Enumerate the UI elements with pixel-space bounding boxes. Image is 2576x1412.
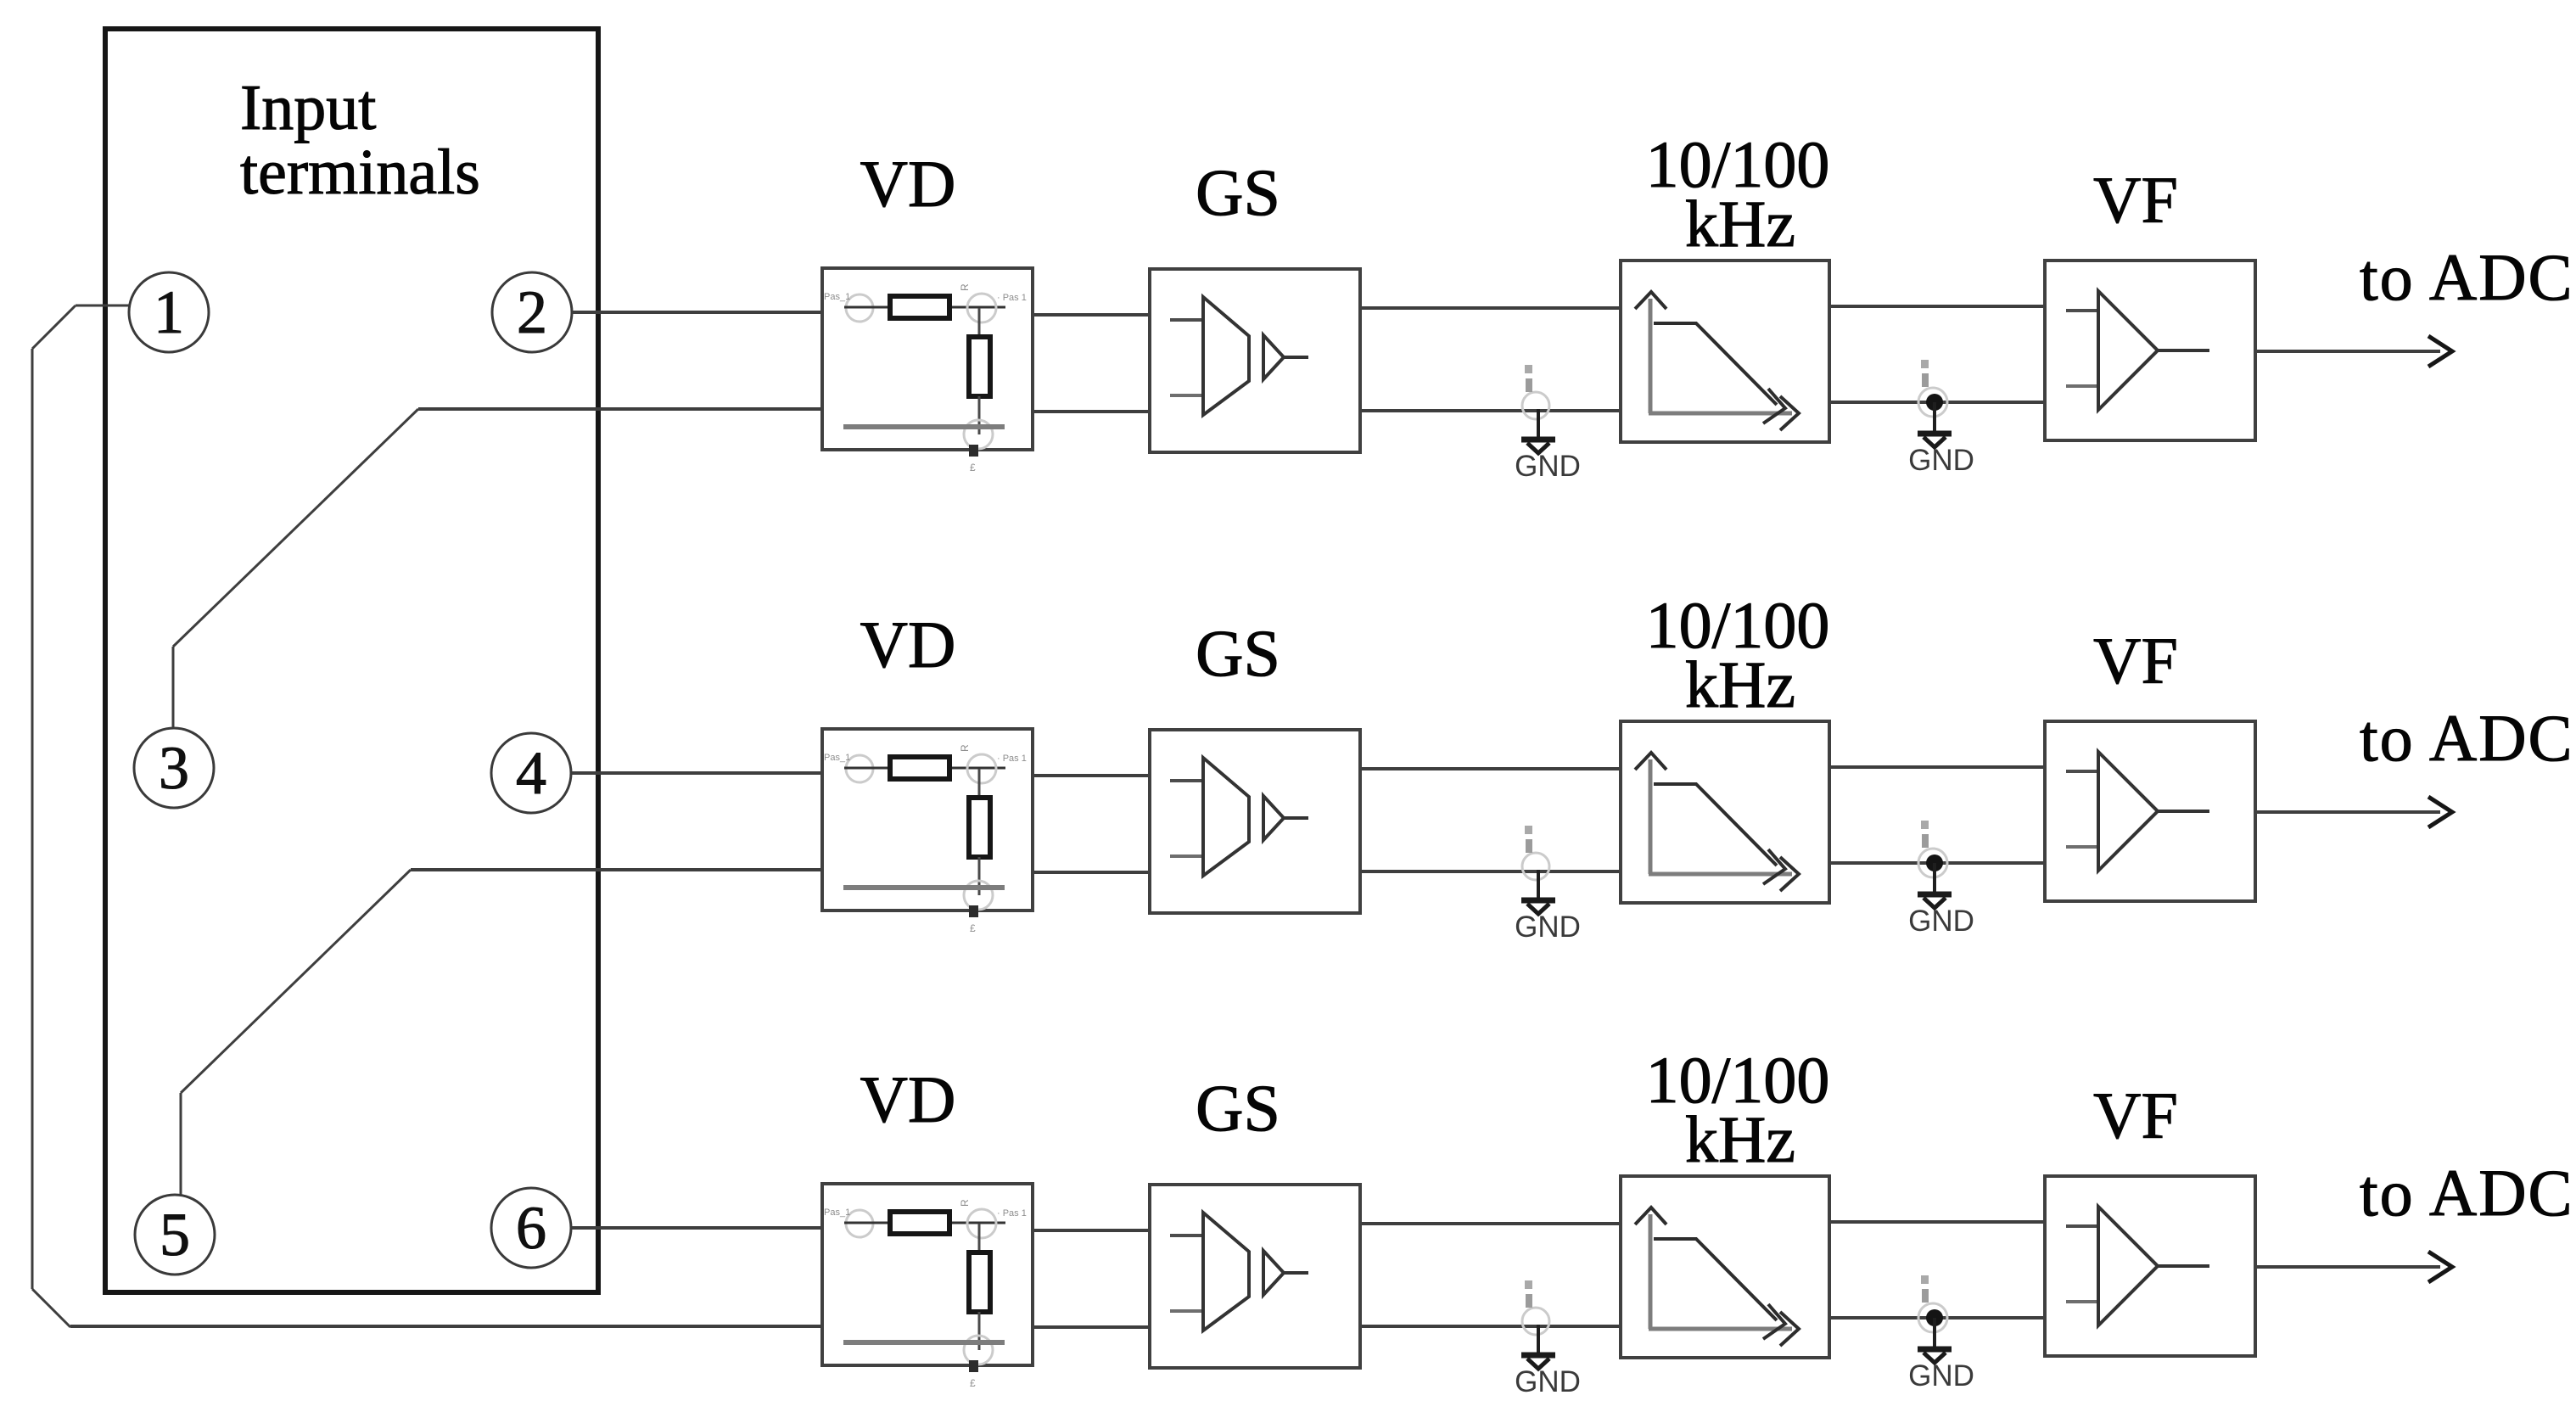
wire outer loop bottom corner (32, 1289, 70, 1327)
ground GND row2 a (1515, 826, 1581, 944)
resistor R2 shunt VD row3 (969, 1252, 990, 1312)
block LPF 10/100 kHz row1 (1621, 261, 1829, 442)
lowpass response symbol row3 (1635, 1207, 1799, 1346)
wire VD to GS row2 upper (1033, 774, 1150, 777)
svg-text:to ADC: to ADC (2360, 1156, 2574, 1230)
wire VD input to R1 row2 (844, 767, 889, 770)
wire R1 to divider node row3 (952, 1222, 1005, 1224)
block GS row2 (1150, 730, 1360, 913)
wire divider node to R2 row1 (978, 308, 981, 338)
wire terminal to VD row1 upper (572, 311, 822, 314)
input terminals box (105, 29, 598, 1292)
svg-text:1: 1 (154, 278, 184, 346)
svg-text:£: £ (970, 922, 976, 934)
block GS row1 (1150, 269, 1360, 452)
resistor R2 shunt VD row2 (969, 798, 990, 857)
block LPF 10/100 kHz row3 (1621, 1176, 1829, 1358)
svg-text:GS: GS (1196, 616, 1280, 690)
node divider VD row2 (967, 754, 996, 783)
block VF row3 (2045, 1176, 2255, 1356)
wire LPF to VF row1 lower (1829, 401, 2045, 404)
pin stub VD bottom row3 (969, 1360, 978, 1372)
wire row2 vertical into terminal 5 (180, 1093, 182, 1195)
wire VF output to ADC row3 (2255, 1252, 2452, 1282)
common rail VD row1 (843, 424, 1005, 429)
wire divider node to R2 row2 (978, 769, 981, 798)
wire LPF to VF row1 upper (1829, 305, 2045, 308)
terminal 1 (129, 272, 209, 352)
pin circle Pas_1 VD row1 (846, 294, 873, 322)
svg-text:VF: VF (2093, 163, 2178, 237)
svg-text:£: £ (970, 462, 976, 473)
wire GS to LPF row2 upper (1360, 767, 1621, 770)
svg-text:GND: GND (1515, 911, 1581, 944)
pin circle common VD row3 (964, 1336, 993, 1364)
svg-text:3: 3 (159, 734, 189, 802)
wire VD to GS row3 upper (1033, 1229, 1150, 1232)
terminal 6 (491, 1188, 571, 1268)
ground GND row1 b (1908, 360, 1974, 477)
terminal 2 (492, 272, 572, 352)
ground GND row1 a (1515, 365, 1581, 483)
svg-text:Pas_1: Pas_1 (824, 753, 850, 763)
svg-text:Pas_1: Pas_1 (824, 1207, 850, 1218)
wire LPF to VF row3 lower (1829, 1316, 2045, 1320)
wire terminal 1 to outer loop (76, 305, 129, 307)
wire divider node to R2 row3 (978, 1224, 981, 1253)
pin circle Pas_1 VD row3 (846, 1210, 873, 1237)
wire VD to GS row3 lower (1033, 1325, 1150, 1329)
svg-text:GND: GND (1515, 450, 1581, 483)
terminal 5 (135, 1195, 215, 1275)
common rail VD row3 (843, 1340, 1005, 1345)
wire VD to GS row2 lower (1033, 871, 1150, 874)
junction row1 (1926, 394, 1943, 411)
pin circle Pas_1 VD row2 (846, 755, 873, 782)
label 10/100 kHz row2 (1646, 588, 1830, 721)
svg-text:· Pas 1: · Pas 1 (997, 1208, 1027, 1219)
wire R1 to divider node row1 (952, 306, 1005, 309)
wire GS to LPF row3 upper (1360, 1222, 1621, 1225)
svg-text:R: R (959, 744, 971, 752)
wire row2 lower horizontal (411, 868, 822, 871)
wire outer loop bottom run to VD row3 (70, 1325, 822, 1328)
wire GS to LPF row1 upper (1360, 306, 1621, 310)
svg-text:· Pas 1: · Pas 1 (997, 293, 1027, 303)
wire LPF to VF row3 upper (1829, 1220, 2045, 1224)
wire outer loop left vertical (31, 349, 34, 1289)
resistor R1 series VD row3 (890, 1212, 949, 1234)
svg-text:6: 6 (516, 1194, 546, 1262)
wire row2 diagonal to terminal 5 (181, 870, 411, 1093)
svg-text:5: 5 (160, 1201, 190, 1269)
amplifier VF row3 (2066, 1207, 2209, 1325)
node divider VD row3 (967, 1209, 996, 1238)
amplifier GS row2 (1170, 758, 1308, 876)
pin stub VD bottom row1 (969, 445, 978, 457)
svg-text:Pas_1: Pas_1 (824, 292, 850, 302)
wire row1 diagonal to terminal 3 (173, 409, 418, 647)
resistor R2 shunt VD row1 (969, 337, 990, 396)
amplifier VF row1 (2066, 291, 2209, 410)
svg-text:kHz: kHz (1685, 647, 1795, 721)
lowpass response symbol row2 (1635, 753, 1799, 891)
wire VD input to R1 row3 (844, 1222, 889, 1224)
svg-text:GND: GND (1908, 905, 1974, 938)
svg-text:GND: GND (1515, 1365, 1581, 1398)
svg-text:R: R (959, 283, 971, 291)
node divider VD row1 (967, 294, 996, 322)
wire R2 to common row2 (978, 857, 981, 895)
wire terminal to VD row2 upper (572, 771, 822, 775)
wire outer loop top corner (32, 305, 76, 349)
svg-text:GS: GS (1196, 1071, 1280, 1145)
pin circle common VD row1 (964, 420, 993, 449)
svg-text:· Pas 1: · Pas 1 (997, 754, 1027, 764)
svg-text:GND: GND (1908, 444, 1974, 477)
svg-text:GND: GND (1908, 1359, 1974, 1392)
svg-text:kHz: kHz (1685, 187, 1795, 261)
wire GS to LPF row1 lower (1360, 409, 1619, 412)
svg-text:R: R (959, 1199, 971, 1207)
label Input terminals (240, 72, 480, 208)
amplifier GS row3 (1170, 1213, 1308, 1331)
wire VF output to ADC row2 (2255, 797, 2452, 827)
wire VD to GS row1 lower (1033, 410, 1150, 413)
svg-text:VF: VF (2093, 624, 2178, 698)
label 10/100 kHz row3 (1646, 1043, 1830, 1176)
pin stub VD bottom row2 (969, 905, 978, 917)
wire GS to LPF row2 lower (1360, 870, 1619, 873)
wire LPF to VF row2 upper (1829, 765, 2045, 769)
svg-text:2: 2 (517, 278, 547, 346)
wire R2 to common row3 (978, 1312, 981, 1350)
ground GND row3 a (1515, 1280, 1581, 1398)
svg-text:terminals: terminals (240, 137, 480, 208)
svg-text:kHz: kHz (1685, 1102, 1795, 1176)
block LPF 10/100 kHz row2 (1621, 721, 1829, 903)
block VF row2 (2045, 721, 2255, 901)
svg-text:GS: GS (1196, 155, 1280, 229)
junction row3 (1926, 1309, 1943, 1326)
block VD row3 (822, 1184, 1033, 1365)
svg-text:4: 4 (516, 739, 546, 807)
wire terminal to VD row3 upper (572, 1226, 822, 1230)
wire GS to LPF row3 lower (1360, 1325, 1619, 1328)
common rail VD row2 (843, 885, 1005, 890)
wire VD input to R1 row1 (844, 306, 889, 309)
block GS row3 (1150, 1185, 1360, 1368)
wire VF output to ADC row1 (2255, 336, 2452, 367)
svg-text:Input: Input (240, 72, 376, 143)
pin circle common VD row2 (964, 881, 993, 910)
lowpass response symbol row1 (1635, 292, 1799, 430)
svg-text:to ADC: to ADC (2360, 701, 2574, 775)
svg-text:VD: VD (860, 1062, 956, 1136)
wire row1 lower horizontal (418, 407, 822, 411)
label 10/100 kHz row1 (1646, 127, 1830, 261)
wire row1 vertical into terminal 3 (172, 647, 175, 728)
wire LPF to VF row2 lower (1829, 861, 2045, 865)
resistor R1 series VD row2 (890, 757, 949, 779)
amplifier VF row2 (2066, 752, 2209, 871)
svg-text:to ADC: to ADC (2360, 240, 2574, 314)
amplifier GS row1 (1170, 297, 1308, 415)
terminal 3 (134, 728, 214, 808)
resistor R1 series VD row1 (890, 296, 949, 318)
wire R2 to common row1 (978, 396, 981, 434)
wire R1 to divider node row2 (952, 767, 1005, 770)
block VD row1 (822, 268, 1033, 450)
wire VD to GS row1 upper (1033, 313, 1150, 317)
terminal 4 (491, 733, 571, 813)
svg-text:VD: VD (860, 608, 956, 681)
block VD row2 (822, 729, 1033, 911)
junction row2 (1926, 854, 1943, 871)
ground GND row3 b (1908, 1275, 1974, 1392)
svg-text:VF: VF (2093, 1079, 2178, 1152)
block VF row1 (2045, 261, 2255, 440)
ground GND row2 b (1908, 821, 1974, 938)
svg-text:VD: VD (860, 147, 956, 221)
svg-text:£: £ (970, 1377, 976, 1389)
